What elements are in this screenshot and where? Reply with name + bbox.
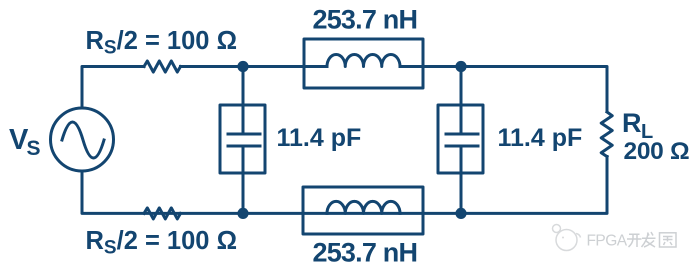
watermark CJK: 圈 [660,233,677,247]
watermark CJK: 发 [642,232,656,247]
watermark logo (faint chick sketch) [553,225,581,251]
svg-text:R: R [622,108,642,138]
svg-text:11.4 pF: 11.4 pF [498,124,583,152]
svg-text:11.4 pF: 11.4 pF [277,124,362,152]
node: bottom C1 junction [237,208,248,219]
node: top C1 junction [237,61,248,72]
sine wave inside VS [62,122,104,158]
svg-text:253.7 nH: 253.7 nH [313,5,418,35]
wire top: resistor to coil [181,65,328,68]
capacitor C2 stem + plates [460,67,463,135]
capacitor C2 box [438,105,483,173]
wire right: R_L to bottom rail [82,157,607,214]
resistor R_S/2 top (zigzag) [144,61,181,72]
inductor L1 box [304,39,423,88]
node junctions [237,61,466,219]
node: bottom C2 junction [455,208,466,219]
wire top: coil to right corner [400,67,607,112]
svg-text:200 Ω: 200 Ω [624,138,690,165]
node: top C2 junction [455,61,466,72]
resistor R_S/2 bottom (zigzag) [144,208,181,219]
capacitor C1 stem + plates [242,67,245,135]
resistor R_L (vertical zigzag) [601,112,612,157]
source VS circle [51,108,114,171]
inductor L2 coil (253.7 nH bottom) [327,201,400,213]
svg-text:253.7 nH: 253.7 nH [313,238,418,268]
watermark CJK: 开 [627,234,642,247]
svg-text:FPGA: FPGA [587,232,628,249]
capacitor C1 box [220,105,265,173]
wire top-left: from Vs up and right to resistor [82,67,144,109]
inductor L2 box [303,187,423,234]
inductor L1 coil (253.7 nH top) [327,55,400,67]
svg-text:S: S [27,137,41,160]
